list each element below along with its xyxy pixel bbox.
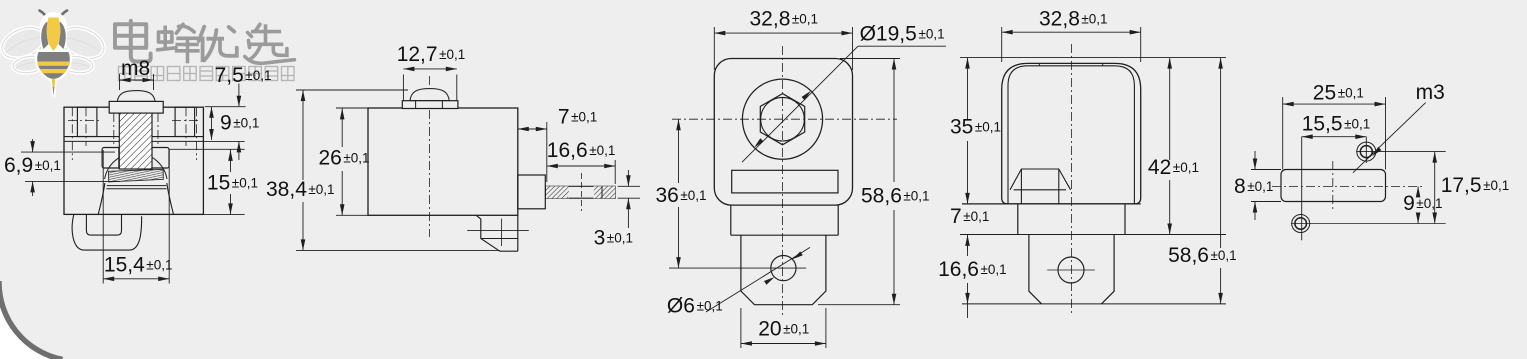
svg-text:±0,1: ±0,1 — [571, 110, 597, 125]
svg-text:±0,1: ±0,1 — [903, 189, 929, 204]
svg-text:m8: m8 — [121, 57, 150, 80]
svg-text:±0,1: ±0,1 — [245, 68, 271, 83]
svg-text:±0,1: ±0,1 — [1247, 179, 1273, 194]
svg-text:12,7: 12,7 — [397, 43, 438, 66]
svg-text:3: 3 — [594, 227, 606, 250]
svg-text:±0,1: ±0,1 — [1081, 12, 1107, 27]
svg-text:15,5: 15,5 — [1302, 113, 1343, 136]
svg-text:±0,1: ±0,1 — [146, 258, 172, 273]
svg-text:35: 35 — [950, 116, 973, 139]
svg-text:±0,1: ±0,1 — [1173, 160, 1199, 175]
svg-text:±0,1: ±0,1 — [1483, 178, 1509, 193]
svg-text:Ø6: Ø6 — [667, 295, 695, 318]
svg-text:±0,1: ±0,1 — [439, 47, 465, 62]
svg-text:±0,1: ±0,1 — [1211, 248, 1237, 263]
svg-text:26: 26 — [319, 147, 342, 170]
svg-text:±0,1: ±0,1 — [343, 151, 369, 166]
svg-text:16,6: 16,6 — [938, 258, 979, 281]
svg-text:16,6: 16,6 — [547, 139, 588, 162]
svg-text:±0,1: ±0,1 — [233, 115, 259, 130]
svg-text:±0,1: ±0,1 — [1344, 117, 1370, 132]
svg-text:±0,1: ±0,1 — [232, 176, 258, 191]
svg-text:58,6: 58,6 — [861, 185, 902, 208]
svg-text:9: 9 — [220, 111, 232, 134]
svg-text:±0,1: ±0,1 — [589, 143, 615, 158]
svg-text:±0,1: ±0,1 — [963, 209, 989, 224]
svg-text:±0,1: ±0,1 — [680, 188, 706, 203]
svg-text:±0,1: ±0,1 — [1416, 196, 1442, 211]
svg-text:7: 7 — [950, 205, 962, 228]
svg-text:58,6: 58,6 — [1168, 244, 1209, 267]
svg-text:±0,1: ±0,1 — [308, 182, 334, 197]
svg-text:±0,1: ±0,1 — [981, 262, 1007, 277]
svg-text:m3: m3 — [1416, 81, 1445, 104]
svg-text:15: 15 — [207, 172, 230, 195]
svg-text:38,4: 38,4 — [266, 178, 307, 201]
svg-text:36: 36 — [656, 184, 679, 207]
svg-text:±0,1: ±0,1 — [697, 299, 723, 314]
svg-text:±0,1: ±0,1 — [35, 158, 61, 173]
svg-text:8: 8 — [1234, 175, 1246, 198]
svg-text:42: 42 — [1148, 156, 1171, 179]
svg-text:32,8: 32,8 — [750, 8, 791, 31]
svg-text:±0,1: ±0,1 — [975, 120, 1001, 135]
svg-text:15,4: 15,4 — [104, 254, 145, 277]
svg-text:7: 7 — [558, 106, 570, 129]
svg-text:±0,1: ±0,1 — [792, 12, 818, 27]
svg-text:±0,1: ±0,1 — [1338, 86, 1364, 101]
svg-text:6,9: 6,9 — [4, 154, 33, 177]
svg-text:±0,1: ±0,1 — [607, 231, 633, 246]
svg-text:9: 9 — [1403, 192, 1415, 215]
svg-text:25: 25 — [1313, 82, 1336, 105]
svg-text:7,5: 7,5 — [215, 64, 244, 87]
svg-text:32,8: 32,8 — [1039, 8, 1080, 31]
svg-text:±0,1: ±0,1 — [783, 322, 809, 337]
svg-text:±0,1: ±0,1 — [919, 27, 945, 42]
svg-text:Ø19,5: Ø19,5 — [860, 23, 917, 46]
svg-text:17,5: 17,5 — [1441, 174, 1482, 197]
svg-text:20: 20 — [758, 318, 781, 341]
